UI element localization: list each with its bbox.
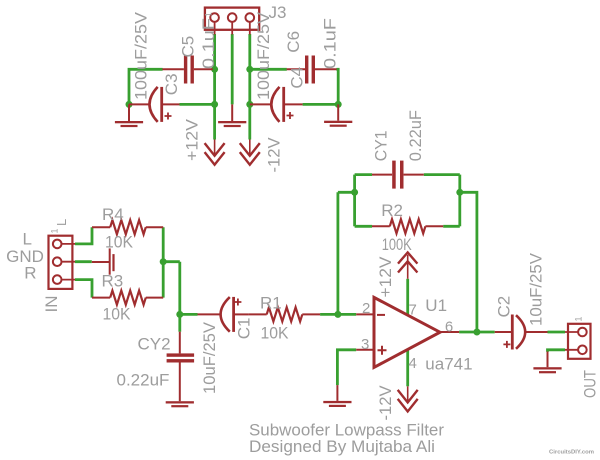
svg-text:R3: R3 <box>102 271 124 290</box>
svg-text:7: 7 <box>409 302 417 319</box>
svg-text:CY2: CY2 <box>138 335 171 354</box>
svg-text:+12V: +12V <box>183 118 202 161</box>
svg-text:0.22uF: 0.22uF <box>117 371 170 390</box>
svg-text:2: 2 <box>362 300 370 317</box>
svg-text:CY1: CY1 <box>372 131 391 162</box>
svg-text:0.22uF: 0.22uF <box>406 110 425 161</box>
svg-text:C5: C5 <box>179 36 198 58</box>
svg-text:1: 1 <box>574 316 584 321</box>
svg-text:0.1uF: 0.1uF <box>321 18 340 69</box>
svg-text:0.1uF: 0.1uF <box>199 18 218 69</box>
svg-text:6: 6 <box>445 318 453 335</box>
svg-text:Subwoofer Lowpass Filter: Subwoofer Lowpass Filter <box>249 422 445 440</box>
svg-text:C1: C1 <box>235 318 254 340</box>
svg-text:R2: R2 <box>381 201 403 220</box>
svg-text:1: 1 <box>50 228 60 233</box>
svg-text:L: L <box>54 219 69 226</box>
svg-text:10uF/25V: 10uF/25V <box>200 321 219 394</box>
svg-text:+12V: +12V <box>376 256 395 298</box>
svg-text:CircuitsDIY.com: CircuitsDIY.com <box>549 450 594 456</box>
svg-text:-12V: -12V <box>376 385 395 421</box>
svg-text:R1: R1 <box>260 293 282 312</box>
svg-text:4: 4 <box>409 355 417 372</box>
svg-text:R: R <box>24 264 36 283</box>
svg-text:100K: 100K <box>382 235 412 254</box>
svg-text:ua741: ua741 <box>425 354 472 373</box>
svg-text:OUT: OUT <box>581 370 600 398</box>
svg-text:IN: IN <box>42 296 61 313</box>
svg-text:100uF/25V: 100uF/25V <box>132 11 151 100</box>
svg-text:C2: C2 <box>495 296 514 318</box>
svg-text:R4: R4 <box>102 205 124 224</box>
svg-text:10K: 10K <box>105 233 134 252</box>
svg-text:10K: 10K <box>261 324 290 343</box>
svg-text:C6: C6 <box>284 31 303 53</box>
svg-text:100uF/25V: 100uF/25V <box>254 11 273 100</box>
svg-text:L: L <box>23 229 32 248</box>
svg-text:-12V: -12V <box>265 137 284 173</box>
svg-text:3: 3 <box>361 336 369 353</box>
svg-text:10uF/25V: 10uF/25V <box>527 252 546 326</box>
svg-text:U1: U1 <box>425 296 447 315</box>
svg-text:10K: 10K <box>103 305 132 324</box>
svg-text:Designed By Mujtaba Ali: Designed By Mujtaba Ali <box>249 438 435 456</box>
svg-text:1: 1 <box>204 12 214 17</box>
svg-text:C4: C4 <box>288 67 307 89</box>
svg-text:C3: C3 <box>162 73 181 95</box>
